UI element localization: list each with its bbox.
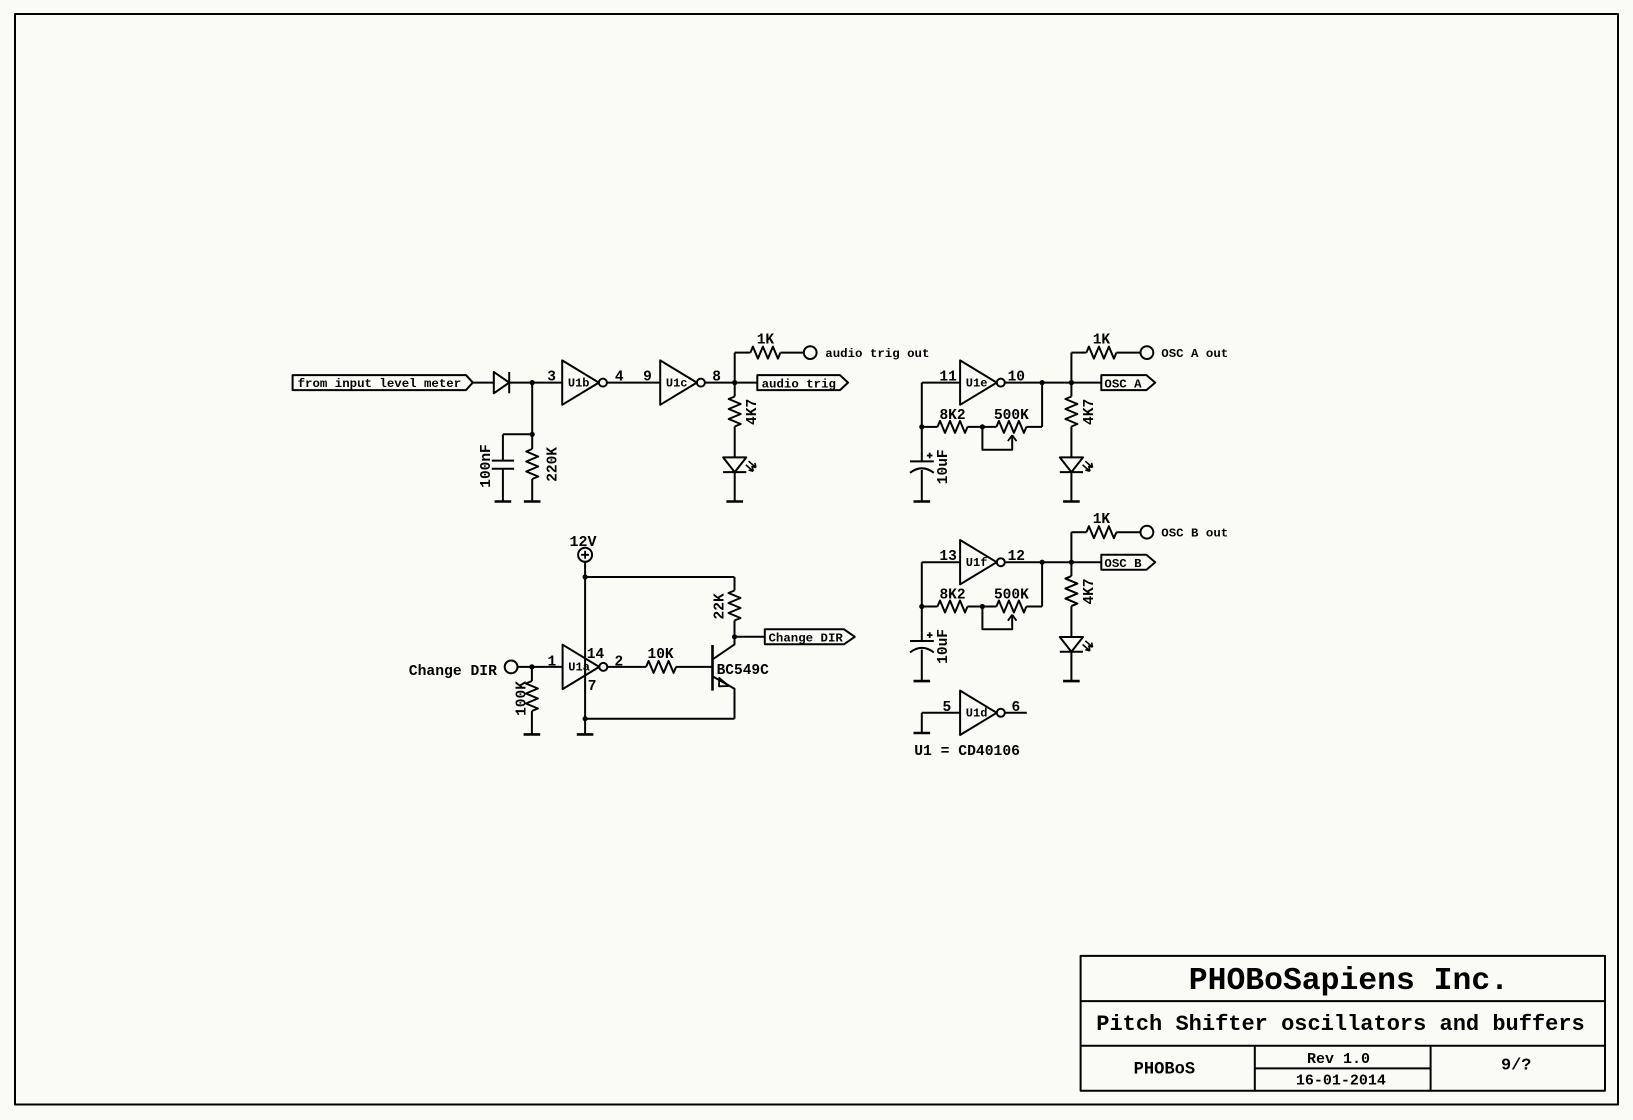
ground for LED U1e xyxy=(1063,500,1080,503)
wire collector node to tag xyxy=(735,636,765,638)
svg-text:Rev 1.0: Rev 1.0 xyxy=(1307,1051,1370,1068)
wire 8K2 to 500K U1e xyxy=(968,426,997,428)
value label 1K U1f xyxy=(1093,512,1111,528)
wire 12V rail to 22K xyxy=(585,577,734,591)
svg-text:9/?: 9/? xyxy=(1501,1057,1531,1076)
LED indicator U1f xyxy=(1060,637,1093,652)
wire 8K2 to 500K U1f xyxy=(968,606,997,608)
svg-text:16-01-2014: 16-01-2014 xyxy=(1296,1073,1386,1090)
pin number 4 xyxy=(615,370,624,386)
transistor Q1 BC549C xyxy=(713,637,735,719)
resistor 1K OSC B out xyxy=(1086,526,1116,538)
pin number 14 xyxy=(587,647,605,663)
value label 8K2 U1e xyxy=(939,408,965,424)
wire 10uF to ground U1e xyxy=(921,470,923,502)
connector pad OSC A out xyxy=(1141,346,1154,359)
value label 1K xyxy=(757,333,775,349)
wire U1d input xyxy=(922,712,960,714)
svg-text:U1b: U1b xyxy=(568,376,590,390)
pin number 7 xyxy=(588,679,597,695)
resistor 4K7 LED dropper xyxy=(729,397,741,427)
pin number 2 xyxy=(614,654,623,670)
svg-text:audio trig out: audio trig out xyxy=(825,347,929,361)
wire 10uF to ground U1f xyxy=(921,650,923,682)
title block divider under title xyxy=(1081,1045,1605,1047)
potentiometer 500K U1f xyxy=(996,601,1026,613)
value label 22K xyxy=(713,593,729,619)
svg-text:OSC B out: OSC B out xyxy=(1161,526,1228,540)
svg-text:4K7: 4K7 xyxy=(745,399,761,425)
wire 4K7 to LED U1f xyxy=(1070,606,1072,637)
wire 100K to ground xyxy=(531,711,533,734)
wire pad to U1a xyxy=(517,666,562,668)
value label 1K U1e xyxy=(1093,333,1111,349)
svg-text:OSC B: OSC B xyxy=(1104,557,1142,571)
svg-text:audio trig: audio trig xyxy=(762,377,836,391)
svg-text:U1 = CD40106: U1 = CD40106 xyxy=(914,744,1020,760)
wire LED to ground xyxy=(734,472,736,501)
wire output up to 1K U1e xyxy=(1071,353,1086,383)
svg-text:7: 7 xyxy=(588,679,597,695)
wire 1K to output pad xyxy=(780,352,804,354)
net tag from input level meter xyxy=(293,375,473,390)
value label 4K7 U1e xyxy=(1082,399,1098,425)
connector Change DIR input pad xyxy=(505,661,518,674)
wire 100nF to ground xyxy=(502,469,504,502)
wire node to capacitor branch xyxy=(503,433,532,435)
company name PHOBoSapiens Inc. xyxy=(1189,964,1509,999)
pin number 6 xyxy=(1012,700,1021,716)
value label 10uF U1f xyxy=(936,629,952,664)
ground for 10uF U1e xyxy=(914,500,931,503)
svg-text:4K7: 4K7 xyxy=(1082,399,1098,425)
ground for 100nF xyxy=(495,500,512,503)
svg-text:10uF: 10uF xyxy=(936,449,952,484)
svg-text:10K: 10K xyxy=(648,647,674,663)
inverter U1d xyxy=(960,691,1005,735)
title block rev/date divider xyxy=(1255,1067,1431,1069)
svg-text:U1c: U1c xyxy=(666,376,688,390)
sheet title Pitch Shifter oscillators and buffers xyxy=(1096,1012,1584,1037)
wire 1K to pad OSC B out xyxy=(1116,531,1140,533)
value label 4K7 xyxy=(745,399,761,425)
svg-text:Change DIR: Change DIR xyxy=(769,632,844,646)
wire U1d input to ground xyxy=(921,713,923,733)
junction node at U1b input xyxy=(530,380,535,385)
LED indicator U1e xyxy=(1060,457,1093,472)
wire 4K7 to LED xyxy=(734,427,736,458)
junction 100K node xyxy=(529,664,534,669)
potentiometer 500K U1e xyxy=(996,421,1026,433)
resistor 10K base xyxy=(646,661,676,673)
wire ground stub xyxy=(584,719,586,735)
svg-text:8K2: 8K2 xyxy=(939,588,965,604)
value label 500K U1f xyxy=(994,588,1029,604)
ground for 220K xyxy=(524,500,541,503)
date 16-01-2014 xyxy=(1296,1073,1386,1090)
diode D1 xyxy=(494,372,509,393)
pin number 5 xyxy=(943,700,952,716)
title block column divider 1 xyxy=(1254,1046,1256,1091)
wire output down to 4K7 U1f xyxy=(1070,562,1072,576)
wire U1b to U1c xyxy=(607,382,660,384)
svg-text:1: 1 xyxy=(548,654,557,670)
pot wiper arm U1e xyxy=(982,427,1016,450)
wire 4K7 to LED U1e xyxy=(1070,427,1072,458)
wire junction down to RC filter xyxy=(531,383,533,435)
revision Rev 1.0 xyxy=(1307,1051,1370,1068)
ground for U1a and Q1 xyxy=(577,733,594,736)
svg-text:OSC A: OSC A xyxy=(1104,377,1142,391)
tag text Change DIR xyxy=(769,632,844,646)
junction feedback U1f xyxy=(1040,560,1045,565)
wire feedback left vertical U1e xyxy=(921,383,923,427)
wire U1d output stub xyxy=(1005,712,1027,714)
wire 10K to base xyxy=(676,666,712,668)
label BC549C xyxy=(717,663,770,679)
pin number 12 xyxy=(1008,549,1025,565)
wire LED to ground U1f xyxy=(1070,652,1072,681)
svg-text:4K7: 4K7 xyxy=(1082,578,1098,604)
svg-text:U1d: U1d xyxy=(966,707,988,721)
svg-text:500K: 500K xyxy=(994,588,1029,604)
value label 500K U1e xyxy=(994,408,1029,424)
pin number 11 xyxy=(939,370,957,386)
svg-text:220K: 220K xyxy=(545,447,561,482)
wire feedback right vertical U1f xyxy=(1041,562,1043,606)
wire cap node to 8K2 U1e xyxy=(922,426,938,428)
value label 10uF U1e xyxy=(936,449,952,484)
wire U1c output to audio trig tag xyxy=(705,382,757,384)
connector pad OSC B out xyxy=(1141,526,1154,539)
pin number 13 xyxy=(939,549,956,565)
svg-text:13: 13 xyxy=(939,549,956,565)
wire tag to diode D1 xyxy=(473,382,494,384)
junction cap node U1e xyxy=(919,424,924,429)
svg-text:PHOBoS: PHOBoS xyxy=(1134,1060,1196,1079)
net tag Change DIR output xyxy=(765,629,855,644)
resistor 22K collector load xyxy=(729,591,741,621)
svg-text:14: 14 xyxy=(587,647,605,663)
resistor 100K pulldown xyxy=(526,681,538,711)
inverter U1c xyxy=(660,360,705,404)
svg-text:22K: 22K xyxy=(713,593,729,619)
wire U1a power pins 14 to 7 xyxy=(584,577,586,719)
junction collector node xyxy=(732,634,737,639)
svg-text:OSC A out: OSC A out xyxy=(1161,347,1228,361)
svg-text:PHOBoSapiens Inc.: PHOBoSapiens Inc. xyxy=(1189,964,1509,999)
wire U1e output to tag xyxy=(1005,382,1101,384)
svg-text:10uF: 10uF xyxy=(936,629,952,664)
wire LED to ground U1e xyxy=(1070,472,1072,501)
svg-text:500K: 500K xyxy=(994,408,1029,424)
ground for U1d input xyxy=(914,732,931,735)
svg-text:Change DIR: Change DIR xyxy=(409,664,497,680)
resistor 4K7 U1e xyxy=(1065,397,1077,427)
wire emitter to ground rail xyxy=(585,718,734,720)
junction output U1e xyxy=(1069,380,1074,385)
svg-text:U1e: U1e xyxy=(966,376,988,390)
inverter U1f xyxy=(960,540,1005,584)
capacitor 10uF U1e xyxy=(910,453,934,473)
resistor 4K7 U1f xyxy=(1065,576,1077,606)
svg-text:5: 5 xyxy=(943,700,952,716)
label OSC A out xyxy=(1161,347,1228,361)
note U1 = CD40106 xyxy=(914,744,1020,760)
svg-text:100K: 100K xyxy=(515,681,531,716)
junction cap node U1f xyxy=(919,604,924,609)
pin number 9 xyxy=(643,370,652,386)
svg-text:9: 9 xyxy=(643,370,652,386)
wire cap node down to 10uF U1f xyxy=(921,607,923,642)
capacitor 100nF xyxy=(492,461,514,469)
ground for LED xyxy=(726,500,743,503)
connector audio trig out pad xyxy=(804,346,817,359)
wire 22K to collector node xyxy=(734,621,736,637)
capacitor 10uF U1f xyxy=(910,632,934,652)
ground for LED U1f xyxy=(1063,680,1080,683)
pin number 8 xyxy=(712,370,721,386)
junction feedback U1e xyxy=(1040,380,1045,385)
svg-text:8K2: 8K2 xyxy=(939,408,965,424)
wire output up to 1K U1f xyxy=(1071,532,1086,562)
svg-text:1K: 1K xyxy=(1093,333,1111,349)
net tag OSC A xyxy=(1101,375,1155,390)
wire feedback left vertical U1f xyxy=(921,562,923,606)
wire output down to 4K7 U1e xyxy=(1070,383,1072,397)
value label 10K xyxy=(648,647,674,663)
inverter U1a xyxy=(563,645,608,689)
net tag audio trig xyxy=(757,375,848,390)
junction wiper node U1e xyxy=(980,424,985,429)
author PHOBoS xyxy=(1134,1060,1196,1079)
svg-text:11: 11 xyxy=(939,370,957,386)
svg-text:U1f: U1f xyxy=(966,556,988,570)
pot wiper arm U1f xyxy=(982,607,1016,630)
wire input pin U1f xyxy=(922,561,960,563)
value label 220K xyxy=(545,447,561,482)
svg-text:100nF: 100nF xyxy=(479,444,495,488)
pin number 10 xyxy=(1008,370,1025,386)
power label 12V xyxy=(569,534,596,551)
wire U1a output to 10K xyxy=(608,666,647,668)
junction output U1f xyxy=(1069,560,1074,565)
ground for 10uF U1f xyxy=(914,680,931,683)
wire 1K to pad OSC A out xyxy=(1116,352,1140,354)
tag text from input level meter xyxy=(298,377,462,391)
wire junction to resistor 220K xyxy=(531,434,533,449)
pin number 1 xyxy=(548,654,557,670)
label Change DIR input xyxy=(409,664,497,680)
tag text OSC A xyxy=(1104,377,1142,391)
tag text OSC B xyxy=(1104,557,1142,571)
wire down to capacitor 100nF xyxy=(502,434,504,460)
svg-text:BC549C: BC549C xyxy=(717,663,770,679)
ground for 100K xyxy=(524,733,541,736)
LED audio trig indicator xyxy=(723,457,756,472)
value label 4K7 U1f xyxy=(1082,578,1098,604)
junction node audio trig xyxy=(732,380,737,385)
sheet number 9/? xyxy=(1501,1057,1531,1076)
svg-text:Pitch Shifter oscillators and: Pitch Shifter oscillators and buffers xyxy=(1096,1012,1584,1037)
svg-text:1K: 1K xyxy=(1093,512,1111,528)
tag text audio trig xyxy=(762,377,836,391)
svg-text:from input level meter: from input level meter xyxy=(298,377,462,391)
junction wiper node U1f xyxy=(980,604,985,609)
junction 12V rail xyxy=(583,574,588,579)
inverter U1e xyxy=(960,360,1005,404)
resistor 1K audio trig out xyxy=(750,347,780,359)
value label 100nF xyxy=(479,444,495,488)
wire junction up to resistor R 1K xyxy=(735,353,751,383)
wire junction down to resistor 4K7 xyxy=(734,383,736,397)
resistor 220K xyxy=(526,449,538,479)
wire diode to U1b xyxy=(509,382,562,384)
wire 500K to feedback U1e xyxy=(1026,426,1042,428)
wire feedback right vertical U1e xyxy=(1041,383,1043,427)
title block column divider 2 xyxy=(1430,1046,1432,1091)
title block divider under company xyxy=(1081,1000,1605,1002)
wire 500K to feedback U1f xyxy=(1026,606,1042,608)
wire 220K to ground xyxy=(531,479,533,502)
wire 100K node down xyxy=(531,667,533,681)
wire input pin U1e xyxy=(922,382,960,384)
junction ground rail xyxy=(583,716,588,721)
power symbol 12V xyxy=(578,548,592,562)
inverter U1b xyxy=(562,360,607,404)
value label 8K2 U1f xyxy=(939,588,965,604)
value label 100K xyxy=(515,681,531,716)
resistor 1K OSC A out xyxy=(1086,347,1116,359)
title block outline xyxy=(1081,956,1605,1091)
pin number 3 xyxy=(547,370,556,386)
svg-text:3: 3 xyxy=(547,370,556,386)
wire U1f output to tag xyxy=(1005,561,1101,563)
wire 12V to rail junction xyxy=(584,562,586,577)
wire cap node down to 10uF U1e xyxy=(921,427,923,462)
resistor 8K2 U1e xyxy=(938,421,968,433)
label audio trig out xyxy=(825,347,929,361)
svg-text:1K: 1K xyxy=(757,333,775,349)
net tag OSC B xyxy=(1101,555,1155,570)
label OSC B out xyxy=(1161,526,1228,540)
resistor 8K2 U1f xyxy=(938,601,968,613)
wire cap node to 8K2 U1f xyxy=(922,606,938,608)
junction node RC filter xyxy=(530,432,535,437)
